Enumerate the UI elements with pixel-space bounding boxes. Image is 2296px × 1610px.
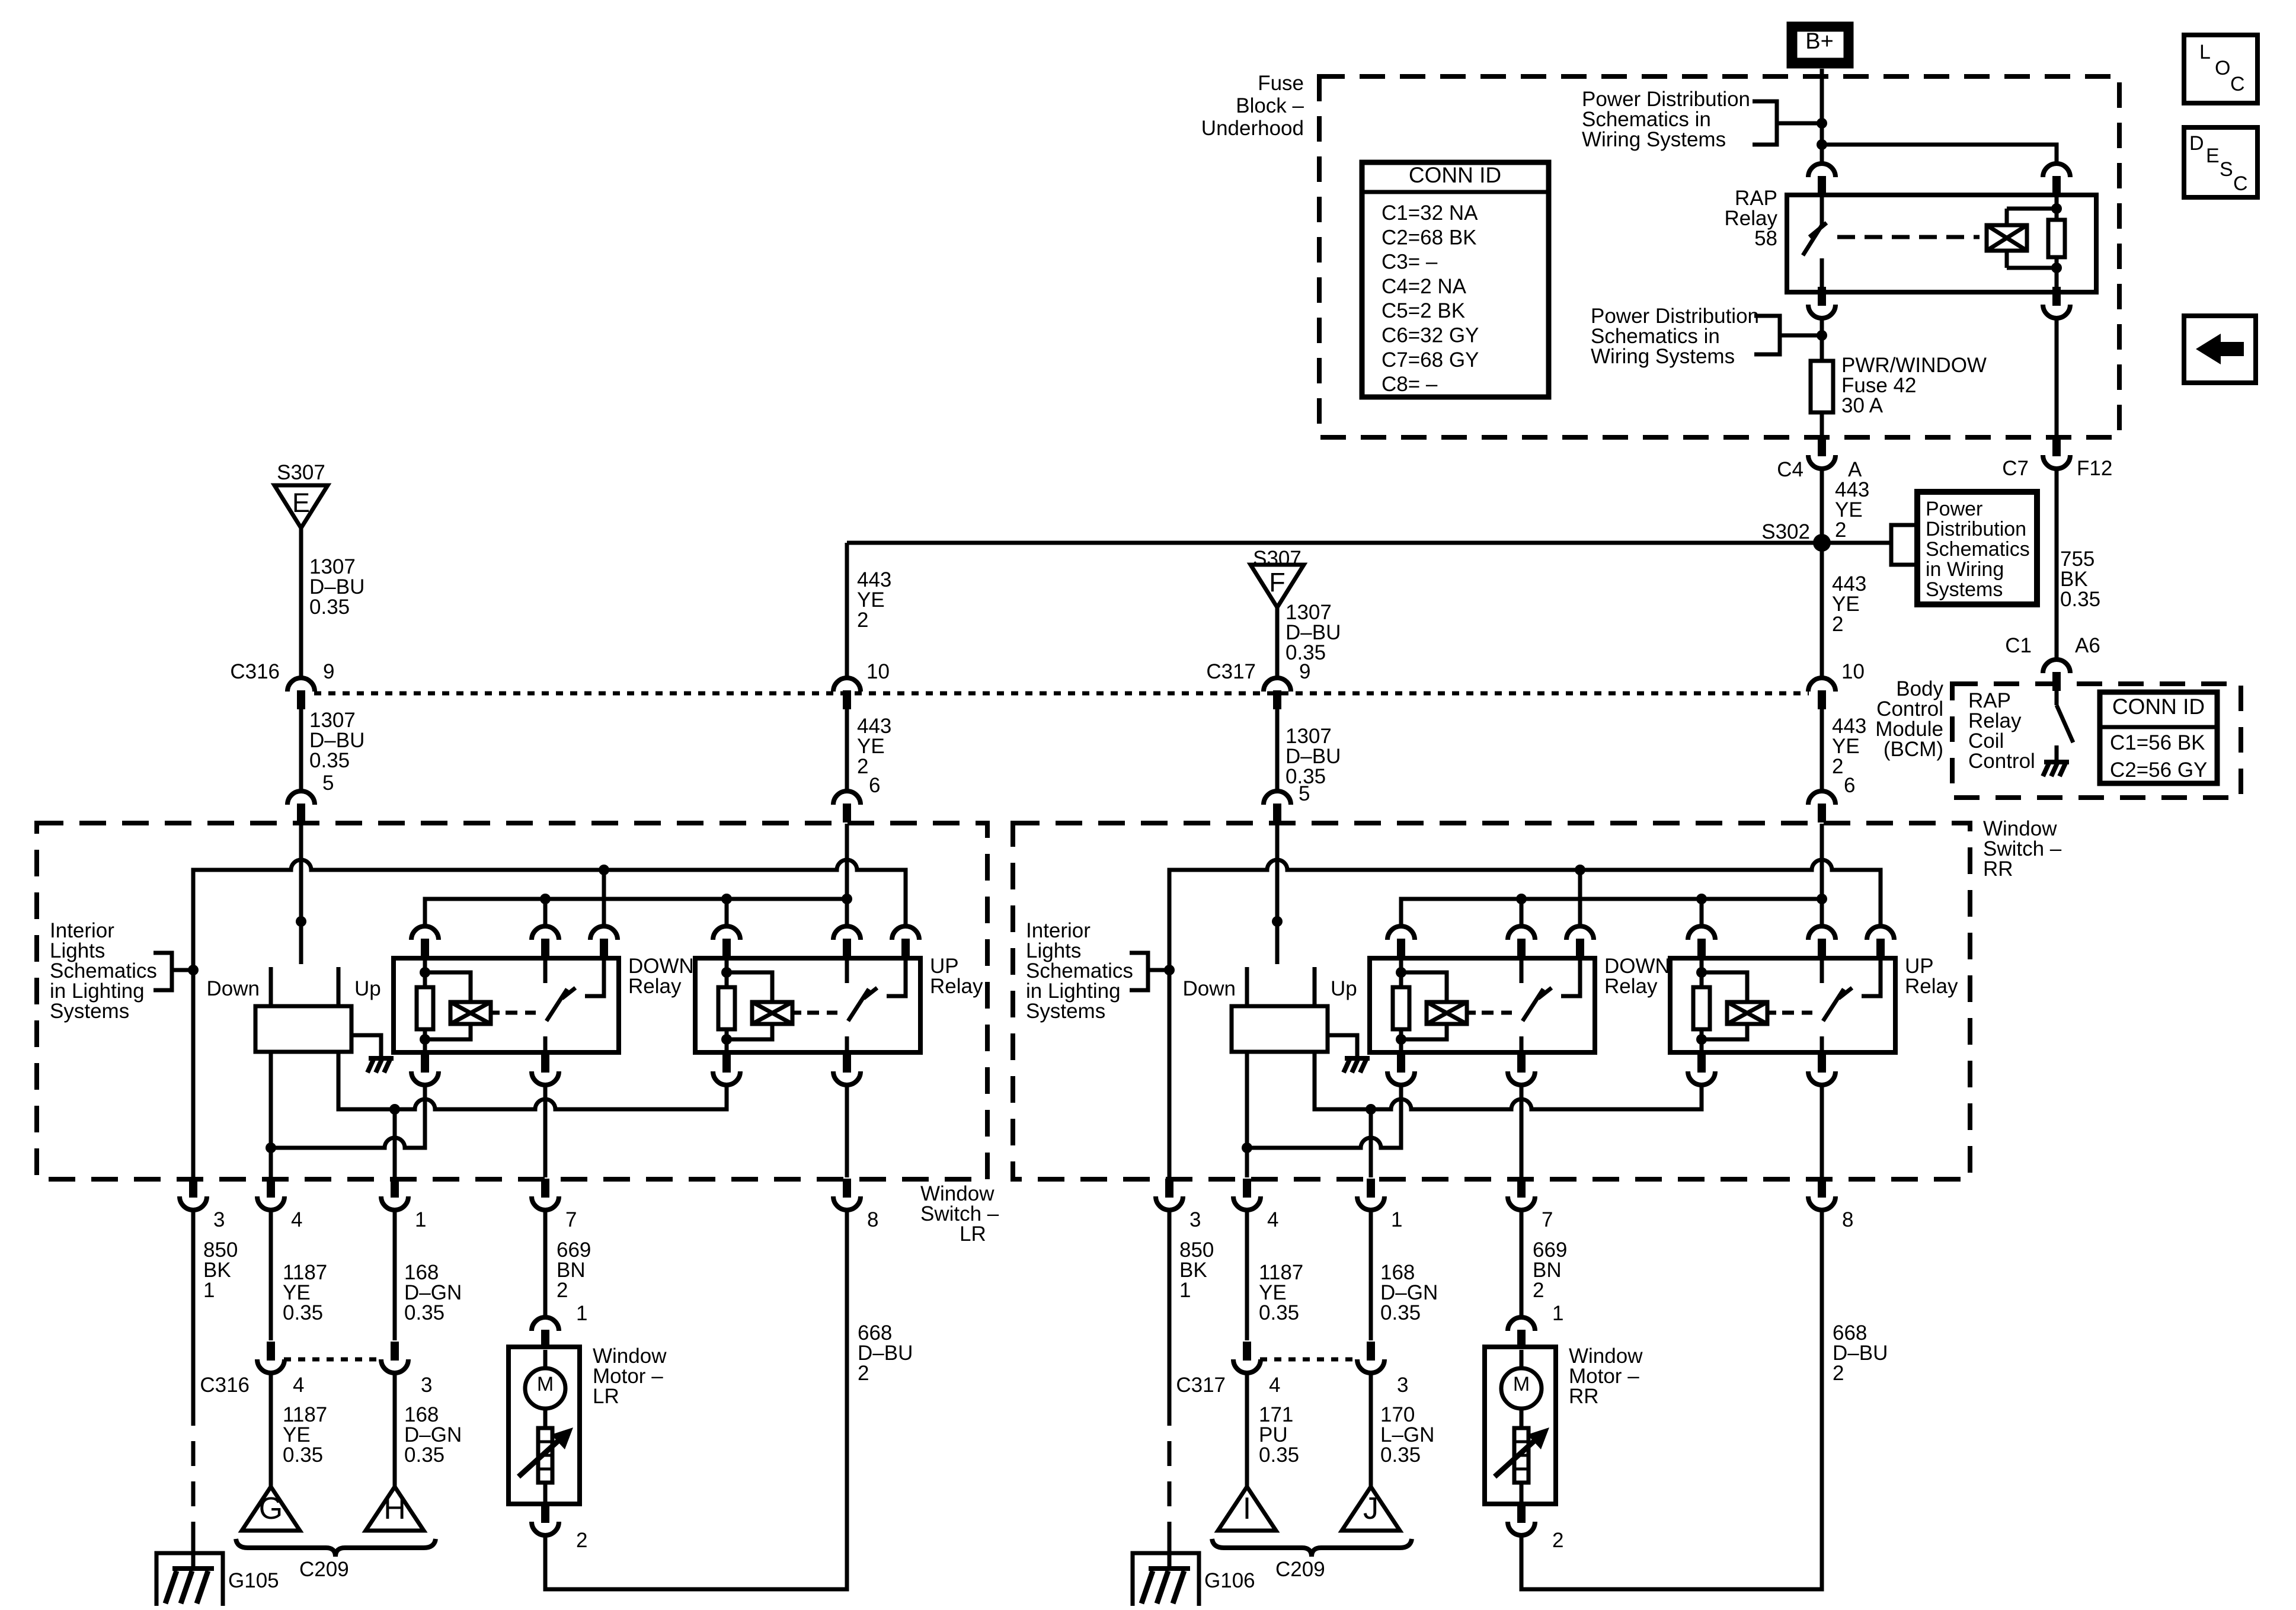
interior lights tie bracket (154, 953, 199, 990)
DOWN relay LR junction dots (420, 967, 430, 1045)
svg-text:2: 2 (1552, 1529, 1563, 1552)
UP relay LR pin 86 connector (713, 926, 740, 958)
connector C209 brace (236, 1539, 436, 1557)
battery feed B+ (1790, 25, 1850, 65)
window motor RR pin 2 connector (1508, 1504, 1535, 1535)
connector C316 pin 9 (287, 678, 315, 709)
DOWN relay LR coil-side wire (423, 958, 427, 1052)
pin 6 riser inside switch (845, 824, 849, 927)
svg-text:0.35: 0.35 (404, 1301, 445, 1324)
svg-text:C5=2 BK: C5=2 BK (1382, 299, 1465, 322)
svg-text:Block –: Block – (1236, 94, 1304, 117)
relay RAP 58 box (1787, 195, 2096, 292)
UP relay RR pin 86 connector (1688, 926, 1715, 958)
RAP relay bottom contact connector (1808, 287, 1835, 318)
svg-text:Schematics: Schematics (1926, 538, 2030, 561)
DOWN relay RR switch contact (1521, 958, 1580, 1052)
rocker ground lead (351, 1035, 381, 1058)
UP relay coil riser (1700, 899, 1704, 927)
svg-text:in Wiring: in Wiring (1926, 558, 2004, 581)
connector boundary dotted line C316-C317 row (314, 692, 1809, 696)
svg-text:0.35: 0.35 (1259, 1301, 1299, 1324)
destination triangle H (366, 1487, 424, 1531)
svg-text:C7=68 GY: C7=68 GY (1382, 348, 1479, 372)
wire UP relay output to pin 8 (845, 1084, 849, 1177)
wire 443 YE to pin 6 (1820, 709, 1824, 792)
power distribution tie bracket (upper) (1753, 101, 1822, 145)
connector C316 pin 4 (257, 1342, 284, 1373)
chassis ground in BCM (2043, 762, 2069, 776)
wire 1307 D-BU to switch pin 5 (299, 709, 303, 792)
svg-text:1: 1 (1179, 1279, 1191, 1302)
DOWN relay LR coil winding (425, 972, 500, 1039)
svg-text:(BCM): (BCM) (1884, 738, 1943, 761)
destination triangle G (242, 1487, 300, 1531)
UP relay RR resistor (1693, 987, 1710, 1029)
wire 168 D-GN upper (393, 1211, 397, 1340)
label C316 and pin 9 (230, 660, 334, 683)
UP relay LR output connector (833, 1054, 861, 1085)
UP relay LR pin 85 connector (713, 1054, 740, 1085)
pin 5 wire to rocker common (1272, 824, 1283, 964)
pin 6 riser inside switch (1820, 824, 1824, 927)
svg-text:7: 7 (1542, 1208, 1553, 1231)
connector C4 pin A (1808, 437, 1835, 469)
body control module dashed enclosure (1952, 684, 2241, 798)
window switch LR pin 1 connector (381, 1179, 408, 1210)
wire DOWN relay output to pin 7 (543, 1084, 548, 1177)
svg-text:C317: C317 (1176, 1374, 1226, 1397)
connector boundary dotted line (C209 row) (1260, 1358, 1358, 1362)
UP relay LR pin 30 connector (833, 926, 861, 958)
UP relay RR coil-side wire (1700, 958, 1704, 1052)
svg-text:G106: G106 (1204, 1569, 1255, 1592)
window switch RR pin 1 connector (1357, 1179, 1384, 1210)
svg-text:RR: RR (1569, 1385, 1599, 1408)
window motor LR (509, 1347, 580, 1504)
UP relay LR pin 87 connector (892, 926, 919, 958)
svg-text:5: 5 (1299, 782, 1310, 805)
svg-text:E: E (2206, 145, 2220, 167)
wire 668 D-BU motor return to pin 8 (545, 1211, 847, 1589)
svg-text:C316: C316 (230, 660, 280, 683)
UP relay LR coil winding (727, 972, 801, 1039)
fuse block CONN ID table (1362, 162, 1549, 397)
svg-text:C6=32 GY: C6=32 GY (1382, 324, 1479, 347)
wire DOWN relay output to pin 7 (1520, 1084, 1524, 1177)
svg-text:I: I (1243, 1491, 1251, 1526)
window rocker switch LR (255, 967, 351, 1052)
svg-text:8: 8 (1842, 1208, 1853, 1231)
destination triangle I (1218, 1487, 1276, 1531)
junction dot ground bus / DOWN relay common (599, 865, 609, 875)
window motor RR (1485, 1347, 1556, 1504)
wire 755 BK C7 to BCM (2055, 468, 2059, 660)
svg-text:Systems: Systems (1026, 1000, 1105, 1023)
wire 168 D-GN upper (1369, 1211, 1373, 1340)
wire 1307 D-BU to switch pin 5 (1275, 709, 1280, 792)
window switch LR pin 5 connector (287, 791, 315, 822)
svg-text:5: 5 (322, 772, 334, 795)
connector pin 10 (1808, 678, 1835, 709)
svg-text:J: J (1363, 1491, 1379, 1526)
power distribution schematics box (1917, 492, 2037, 604)
window switch LR dashed enclosure (37, 823, 987, 1179)
DOWN relay LR output connector (532, 1054, 559, 1085)
window switch RR pin 5 connector (1264, 791, 1291, 822)
svg-text:2: 2 (1533, 1279, 1544, 1302)
svg-text:S307: S307 (277, 461, 325, 484)
DOWN relay RR box (1370, 958, 1595, 1052)
svg-text:0.35: 0.35 (404, 1443, 445, 1467)
svg-text:2: 2 (576, 1529, 587, 1552)
DOWN relay RR pin 30 connector (1508, 926, 1535, 958)
splice S302 (1761, 520, 1831, 552)
svg-text:9: 9 (323, 660, 334, 683)
svg-text:6: 6 (1844, 774, 1855, 797)
UP relay RR junction dots (1696, 967, 1707, 1045)
DOWN relay RR coil winding (1401, 972, 1476, 1039)
svg-text:Wiring Systems: Wiring Systems (1582, 128, 1726, 151)
svg-text:30 A: 30 A (1841, 394, 1884, 417)
svg-text:0.35: 0.35 (1380, 1301, 1421, 1324)
DOWN relay LR box (394, 958, 619, 1052)
DOWN relay RR junction dots (1396, 967, 1406, 1045)
svg-text:D: D (2189, 132, 2204, 155)
label C316 lower and pins 4 3 (200, 1374, 432, 1397)
wire RAP relay to PWR/WINDOW fuse (1817, 318, 1827, 361)
UP relay coil riser (725, 899, 729, 927)
svg-text:Wiring Systems: Wiring Systems (1591, 345, 1735, 368)
LOC reference box (2184, 35, 2257, 103)
svg-text:LR: LR (960, 1222, 986, 1246)
svg-text:0.35: 0.35 (1259, 1443, 1299, 1467)
svg-text:C4: C4 (1777, 458, 1803, 481)
svg-text:F: F (1269, 567, 1285, 597)
window switch RR pin 4 connector (1233, 1179, 1261, 1210)
wire pin 1 drop (393, 1109, 397, 1177)
svg-text:C: C (2233, 172, 2248, 195)
UP relay RR box (1670, 958, 1895, 1052)
svg-text:CONN ID: CONN ID (2112, 694, 2205, 719)
wire 171 PU to triangle I (1245, 1372, 1249, 1487)
UP relay LR actuating dashed link (807, 1011, 837, 1015)
svg-text:C8= –: C8= – (1382, 373, 1438, 396)
svg-text:1: 1 (415, 1208, 426, 1231)
chassis ground at rocker (1344, 1058, 1370, 1073)
svg-text:0.35: 0.35 (309, 596, 350, 619)
UP relay RR pin 87 connector (1867, 926, 1894, 958)
svg-text:CONN ID: CONN ID (1409, 163, 1501, 187)
svg-text:3: 3 (213, 1208, 225, 1231)
svg-text:3: 3 (1397, 1374, 1408, 1397)
interior lights tie bracket (1130, 953, 1175, 990)
svg-text:Relay: Relay (930, 975, 983, 998)
svg-text:Up: Up (354, 977, 381, 1000)
svg-text:0.35: 0.35 (1380, 1443, 1421, 1467)
RAP relay bottom coil connector (2043, 287, 2070, 318)
svg-text:M: M (537, 1373, 554, 1395)
fuse PWR/WINDOW 42 (1811, 361, 1833, 412)
RAP relay 58 coil connector (B+ side) (2043, 164, 2070, 195)
DESC reference box (2184, 127, 2257, 197)
wire Up prong to pin 1 net (338, 1052, 727, 1115)
svg-text:7: 7 (565, 1208, 577, 1231)
UP relay RR pin 85 connector (1688, 1054, 1715, 1085)
svg-text:O: O (2215, 57, 2230, 79)
svg-text:2: 2 (857, 755, 868, 778)
labels C1 and A6 (2005, 634, 2100, 657)
wire S302 to power distribution bracket (1822, 541, 1891, 545)
ground G105 (156, 1553, 223, 1606)
wire 850 BK to G106 (1168, 1211, 1172, 1569)
wire RAP relay coil to C7 (2055, 318, 2059, 437)
label C317 lower and pins 4 3 (1176, 1374, 1408, 1397)
UP relay LR junction dots (721, 967, 732, 1045)
svg-text:2: 2 (557, 1279, 568, 1302)
window switch LR pin 6 connector (833, 791, 861, 822)
svg-text:2: 2 (858, 1362, 869, 1385)
DOWN relay pin30 riser (543, 899, 548, 927)
window switch RR pin 8 connector (1808, 1179, 1835, 1210)
svg-text:C316: C316 (200, 1374, 250, 1397)
labels C4 and A (1777, 458, 1862, 481)
window switch LR pin 8 connector (833, 1179, 861, 1210)
splice triangle S307 E (274, 485, 328, 528)
window motor LR pin 2 connector (532, 1504, 559, 1535)
wire 443 YE riser to switch pin 6 (845, 543, 849, 678)
DOWN relay LR pin 85 connector (411, 1054, 439, 1085)
connector C317 pin 4 (1233, 1342, 1261, 1373)
fuse block underhood dashed enclosure (1319, 76, 2119, 437)
svg-text:4: 4 (1269, 1374, 1280, 1397)
svg-text:9: 9 (1299, 660, 1310, 683)
chassis ground at rocker (367, 1058, 394, 1073)
wire 1187 YE upper (1245, 1211, 1249, 1340)
window switch LR pin 3 connector (180, 1179, 207, 1210)
wire 668 D-BU motor return to pin 8 (1521, 1211, 1822, 1589)
DOWN relay RR actuating dashed link (1482, 1011, 1512, 1015)
BCM RAP relay coil control switch (2057, 691, 2073, 762)
svg-text:10: 10 (1841, 660, 1865, 683)
svg-text:C1=56 BK: C1=56 BK (2110, 731, 2205, 754)
svg-text:4: 4 (291, 1208, 302, 1231)
svg-text:3: 3 (421, 1374, 432, 1397)
DOWN relay RR pin 85 connector (1387, 1054, 1415, 1085)
wire 669 BN to window motor (543, 1211, 548, 1318)
wire 1307 D-BU from S307 E to C316 pin 9 (299, 528, 303, 678)
window switch RR name label (1983, 817, 2062, 881)
UP relay RR switch contact (1822, 958, 1881, 1052)
svg-text:LR: LR (593, 1385, 619, 1408)
svg-text:1: 1 (1391, 1208, 1402, 1231)
connector C316 pin 3 (381, 1342, 408, 1373)
svg-text:C209: C209 (299, 1558, 349, 1581)
svg-text:C317: C317 (1206, 660, 1256, 683)
svg-text:L: L (2199, 41, 2211, 63)
svg-text:4: 4 (293, 1374, 304, 1397)
svg-text:F12: F12 (2077, 457, 2112, 480)
connector C1 pin A6 (2043, 660, 2070, 691)
svg-text:2: 2 (1832, 613, 1843, 636)
svg-text:10: 10 (866, 660, 890, 683)
connector pin 10 (833, 678, 861, 709)
svg-text:8: 8 (867, 1208, 878, 1231)
svg-text:1: 1 (1552, 1302, 1563, 1325)
svg-text:RR: RR (1983, 857, 2013, 881)
window switch RR ground bus (pin 3 net) (1169, 860, 1881, 1177)
window switch LR 443 YE feed bus (pin 6 net) (425, 899, 847, 927)
svg-text:Down: Down (1183, 977, 1236, 1000)
svg-text:Underhood: Underhood (1201, 117, 1304, 140)
svg-text:6: 6 (869, 774, 880, 797)
wire 170 L-GN to triangle J (1369, 1372, 1373, 1487)
svg-text:2: 2 (1835, 518, 1846, 542)
window switch LR name label (920, 1182, 999, 1246)
RAP relay actuating dashed link (1837, 235, 1980, 239)
svg-text:Relay: Relay (1604, 975, 1658, 998)
DOWN relay LR pin 30 connector (532, 926, 559, 958)
svg-text:C2=56 GY: C2=56 GY (2110, 758, 2207, 782)
label C317 and pin 9 (1206, 660, 1310, 683)
RAP relay 58 contact connector (B+ side) (1808, 164, 1835, 195)
labels C7 and F12 (2002, 457, 2112, 480)
svg-text:Systems: Systems (1926, 578, 2003, 601)
svg-text:C: C (2230, 73, 2245, 95)
wire B+ branch to RAP relay coil (1822, 145, 2057, 163)
wire fuse to C4 (1820, 412, 1824, 437)
svg-text:2: 2 (1833, 1362, 1844, 1385)
RAP relay switch contact (1803, 195, 1827, 292)
svg-text:Fuse: Fuse (1258, 72, 1304, 95)
wire B+ to RAP relay (1817, 69, 1827, 163)
connector C7 pin F12 (2043, 437, 2070, 469)
junction dots feed bus (540, 894, 852, 904)
svg-text:A6: A6 (2075, 634, 2100, 657)
svg-text:0.35: 0.35 (283, 1443, 323, 1467)
svg-text:C209: C209 (1275, 1558, 1325, 1581)
DOWN relay RR output connector (1508, 1054, 1535, 1085)
svg-text:M: M (1513, 1373, 1530, 1395)
BCM CONN ID table (2100, 692, 2217, 783)
DOWN relay LR actuating dashed link (506, 1011, 536, 1015)
DOWN relay LR switch contact (545, 958, 604, 1052)
window switch LR pin 7 connector (532, 1179, 559, 1210)
rocker ground lead (1328, 1035, 1357, 1058)
window switch RR 443 YE feed bus (pin 6 net) (1401, 899, 1822, 927)
svg-text:Up: Up (1331, 977, 1357, 1000)
svg-text:58: 58 (1754, 227, 1777, 250)
window motor RR pin 1 connector (1508, 1317, 1535, 1349)
svg-text:Relay: Relay (1905, 975, 1958, 998)
svg-text:1: 1 (576, 1302, 587, 1325)
svg-text:H: H (383, 1491, 406, 1526)
DOWN relay LR pin 86 connector (411, 926, 439, 958)
wire 168 D-GN to triangle H (393, 1372, 397, 1487)
DOWN relay pin30 riser (1520, 899, 1524, 927)
window switch LR pin 4 connector (257, 1179, 284, 1210)
DOWN relay RR resistor (1393, 987, 1409, 1029)
wire pin 1 drop (1369, 1109, 1373, 1177)
wire 1187 YE upper (269, 1211, 273, 1340)
UP relay RR coil winding (1702, 972, 1776, 1039)
svg-text:S302: S302 (1761, 520, 1810, 543)
wire 443 YE to pin 6 (845, 709, 849, 792)
junction dot ground bus / DOWN relay common (1575, 865, 1585, 875)
wire UP relay output to pin 8 (1820, 1084, 1824, 1177)
UP relay LR resistor (718, 987, 735, 1029)
svg-text:S: S (2220, 158, 2233, 181)
connector C317 pin 9 (1264, 678, 1291, 709)
svg-text:Control: Control (1968, 750, 2035, 773)
svg-text:Distribution: Distribution (1926, 518, 2026, 540)
UP relay RR output connector (1808, 1054, 1835, 1085)
svg-text:4: 4 (1267, 1208, 1278, 1231)
svg-text:E: E (292, 488, 310, 518)
UP relay LR coil-side wire (725, 958, 729, 1052)
splice triangle S307 F (1251, 565, 1304, 607)
svg-text:2: 2 (1832, 755, 1843, 778)
wire 443 YE C4 to S302 (1820, 468, 1824, 543)
svg-text:C7: C7 (2002, 457, 2029, 480)
svg-text:Power: Power (1926, 498, 1982, 520)
RAP relay coil and resistor (1987, 195, 2065, 292)
wire 1187 YE to triangle G (269, 1372, 273, 1487)
power distribution tie bracket (lower) (1754, 316, 1822, 354)
UP relay RR pin 30 connector (1808, 926, 1835, 958)
UP relay RR actuating dashed link (1782, 1011, 1812, 1015)
connector C209 brace (1212, 1539, 1412, 1557)
DOWN relay LR resistor (417, 987, 433, 1029)
svg-text:Systems: Systems (50, 1000, 129, 1023)
window switch RR pin 7 connector (1508, 1179, 1535, 1210)
svg-text:C3= –: C3= – (1382, 251, 1438, 274)
wire 850 BK to G105 (191, 1211, 196, 1569)
wire Down prong to pin 4 (1242, 1052, 1252, 1177)
wire 1307 D-BU from S307 F to C317 pin 9 (1275, 607, 1280, 678)
svg-text:Relay: Relay (628, 975, 682, 998)
DOWN relay common riser (1578, 870, 1582, 927)
window rocker switch RR (1232, 967, 1328, 1052)
svg-text:C1: C1 (2005, 634, 2032, 657)
svg-text:0.35: 0.35 (2060, 588, 2100, 611)
junction dots feed bus (1516, 894, 1827, 904)
connector boundary dotted line (C209 row) (284, 1358, 382, 1362)
back arrow box (2184, 316, 2256, 383)
DOWN relay LR pin 87 connector (590, 926, 618, 958)
svg-text:G: G (259, 1491, 283, 1526)
DOWN relay RR pin 86 connector (1387, 926, 1415, 958)
wire 669 BN to window motor (1520, 1211, 1524, 1318)
window switch LR ground bus (pin 3 net) (193, 860, 906, 1177)
svg-text:C4=2 NA: C4=2 NA (1382, 275, 1467, 298)
svg-text:1: 1 (203, 1279, 215, 1302)
power distribution tie bracket (S302) (1891, 525, 1916, 565)
pin 5 wire to rocker common (296, 824, 306, 964)
UP relay LR box (695, 958, 920, 1052)
DOWN relay RR pin 87 connector (1566, 926, 1594, 958)
destination triangle J (1342, 1487, 1400, 1531)
svg-text:0.35: 0.35 (309, 749, 350, 772)
wire 443 YE riser to switch pin 6 (1820, 468, 1824, 678)
wire DOWN relay coil to Down prong (1247, 1084, 1401, 1148)
svg-text:Down: Down (207, 977, 260, 1000)
svg-text:2: 2 (857, 609, 868, 632)
wire Down prong to pin 4 (266, 1052, 276, 1177)
ground G106 (1133, 1553, 1199, 1606)
svg-text:3: 3 (1189, 1208, 1201, 1231)
wire Up prong to pin 1 net (1315, 1052, 1702, 1115)
